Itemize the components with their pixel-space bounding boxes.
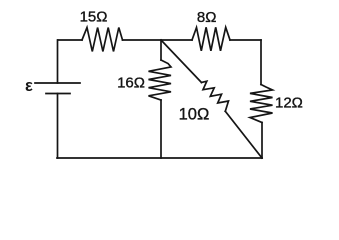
wire middle upper vertical bbox=[160, 40, 162, 60]
wire right upper vertical bbox=[260, 40, 262, 85]
resistor R5 12ohm spring zigzag bbox=[250, 85, 273, 123]
resistor R4 10ohm diagonal zigzag bbox=[202, 81, 229, 111]
resistor R1 15ohm zigzag bbox=[82, 28, 123, 52]
wire diagonal upper lead bbox=[161, 40, 202, 83]
wire top-right horizontal bbox=[230, 39, 261, 41]
wire bottom horizontal bbox=[57, 157, 262, 159]
resistor R3 16ohm spring zigzag bbox=[149, 60, 172, 100]
wire right lower vertical bbox=[261, 123, 263, 159]
svg-text:ε: ε bbox=[25, 77, 33, 95]
svg-text:12Ω: 12Ω bbox=[275, 95, 303, 112]
wire middle lower vertical bbox=[160, 100, 162, 158]
svg-text:10Ω: 10Ω bbox=[179, 105, 210, 123]
wire left upper vertical bbox=[57, 40, 59, 83]
wire diagonal lower lead bbox=[225, 111, 262, 158]
resistor R2 8ohm zigzag bbox=[192, 27, 230, 51]
battery long plate bbox=[35, 82, 80, 84]
svg-text:15Ω: 15Ω bbox=[80, 9, 108, 26]
wire top-middle horizontal bbox=[123, 39, 193, 41]
svg-text:16Ω: 16Ω bbox=[117, 74, 145, 91]
battery short plate bbox=[46, 93, 70, 95]
wire top-left horizontal bbox=[58, 39, 82, 41]
svg-text:8Ω: 8Ω bbox=[197, 9, 217, 26]
wire left lower vertical bbox=[57, 94, 59, 159]
